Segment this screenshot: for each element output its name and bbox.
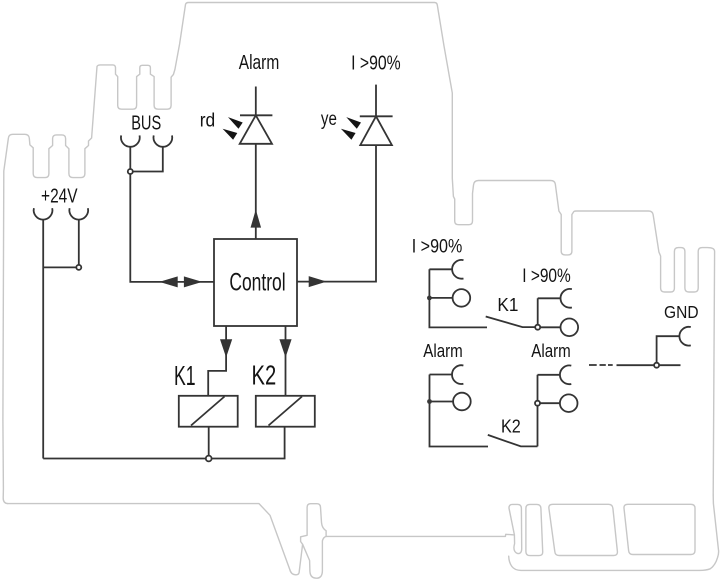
svg-text:BUS: BUS — [131, 112, 161, 134]
rd light arrow 1 — [228, 117, 243, 129]
B1 wires — [538, 298, 561, 327]
arrow up to LED — [251, 211, 260, 227]
A1 junction dot — [427, 296, 432, 301]
svg-text:K2: K2 — [252, 360, 277, 391]
svg-text:I >90%: I >90% — [412, 235, 463, 257]
svg-text:I >90%: I >90% — [522, 265, 571, 287]
B2 circle — [560, 394, 578, 412]
black circuit — [34, 85, 691, 462]
terminal BUS left cup — [121, 135, 140, 146]
wire control to K1 coil — [208, 326, 226, 396]
foot blade hook — [509, 504, 522, 553]
A2 wires — [430, 375, 489, 447]
LED ye (I>90%) — [375, 85, 377, 117]
rd light arrow 2 — [223, 129, 238, 140]
junction ring rail — [206, 456, 212, 462]
svg-text:Control: Control — [229, 269, 285, 297]
wire control to alarm LED — [255, 144, 257, 239]
junction ring GND — [654, 363, 659, 368]
wire +24V link — [43, 266, 76, 268]
B2 wires — [538, 375, 561, 447]
contact group B2 Alarm : cup — [560, 365, 571, 384]
wire control to I>90% LED — [297, 145, 376, 282]
arrow down K1 — [221, 340, 232, 356]
switch K1 blade — [486, 317, 535, 328]
terminal GND cup — [679, 327, 690, 346]
svg-text:rd: rd — [200, 111, 216, 132]
wire +24V left down — [42, 220, 44, 459]
svg-text:K1: K1 — [174, 360, 196, 391]
terminal +24V right cup — [69, 208, 88, 219]
relay coil K2 — [256, 396, 315, 427]
B2 junction ring — [535, 401, 540, 406]
wire control to K2 coil — [285, 326, 287, 396]
arrow right on wire — [309, 277, 325, 287]
wire bus-control double arrow — [161, 277, 177, 287]
wire to GND — [617, 336, 681, 365]
arrow down K2 — [280, 340, 291, 356]
svg-text:ye: ye — [321, 109, 337, 130]
control box U1 — [214, 239, 297, 326]
junction ring K1 — [535, 325, 540, 330]
svg-text:Alarm: Alarm — [239, 51, 280, 74]
B1 circle — [561, 319, 579, 337]
junction ring +24V — [76, 265, 81, 270]
dashed continuation — [589, 364, 613, 366]
wire +24V right down — [78, 220, 80, 265]
ye light arrow 1 — [346, 117, 361, 129]
lever boot — [303, 536, 327, 578]
terminal BUS right cup — [153, 135, 172, 146]
switch K2 blade — [488, 435, 538, 447]
terminal +24V left cup — [34, 208, 53, 219]
contact group A1 I>90% : cup — [452, 260, 463, 279]
A2 circle — [453, 393, 471, 411]
housing bottom edge and release lever — [8, 504, 515, 575]
LED rd (Alarm) — [255, 87, 257, 116]
foot plate R3 — [624, 504, 695, 554]
bottom rail wire — [43, 427, 284, 459]
relay coil K1 — [179, 396, 238, 427]
junction ring BUS — [128, 169, 133, 174]
A1 circle — [453, 289, 471, 307]
svg-text:Alarm: Alarm — [531, 341, 571, 361]
A1 wires — [429, 269, 487, 327]
contact group B1 I>90% : cup — [561, 289, 572, 308]
wire BUS right down — [133, 147, 163, 172]
svg-text:GND: GND — [664, 302, 699, 322]
svg-text:I >90%: I >90% — [351, 53, 401, 75]
svg-text:K2: K2 — [501, 416, 521, 437]
foot skirt — [509, 495, 719, 570]
svg-text:+24V: +24V — [41, 185, 78, 207]
ye light arrow 2 — [341, 129, 356, 140]
A2 junction dot — [427, 399, 432, 404]
wire BUS left down — [129, 147, 131, 169]
foot plate R1 — [526, 504, 543, 555]
wire K1 coil to rail — [208, 427, 210, 456]
foot plate R2 — [549, 504, 618, 555]
svg-text:K1: K1 — [497, 294, 518, 315]
svg-text:Alarm: Alarm — [423, 341, 463, 361]
contact group A2 Alarm : cup — [452, 365, 463, 384]
wire BUS to control — [130, 174, 214, 282]
